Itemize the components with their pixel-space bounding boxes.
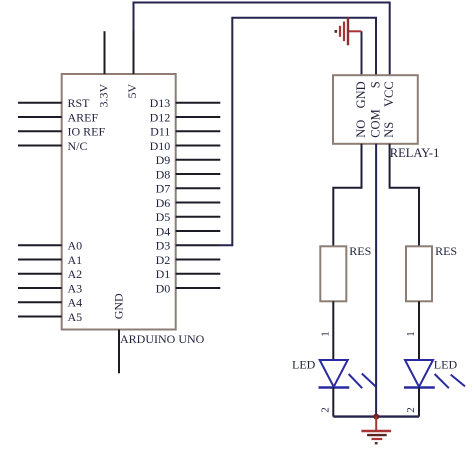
pin A0 bbox=[18, 239, 82, 253]
pin D3 bbox=[156, 239, 220, 253]
LED D1 symbol bbox=[319, 360, 377, 388]
svg-text:D0: D0 bbox=[156, 281, 171, 295]
svg-text:D7: D7 bbox=[156, 182, 171, 196]
pin D5 bbox=[156, 210, 221, 224]
wire 5V to relay VCC bbox=[134, 3, 390, 76]
svg-text:D12: D12 bbox=[150, 110, 171, 124]
svg-text:RES: RES bbox=[349, 244, 371, 258]
svg-text:A0: A0 bbox=[68, 239, 83, 253]
pin D8 bbox=[156, 167, 221, 181]
svg-text:D1: D1 bbox=[156, 267, 171, 281]
svg-text:3.3V: 3.3V bbox=[96, 83, 110, 107]
svg-text:NO: NO bbox=[354, 120, 368, 138]
pin 5V bbox=[125, 30, 139, 99]
wire red ground lead (top) bbox=[348, 30, 362, 32]
svg-text:2: 2 bbox=[319, 407, 331, 413]
pin D11 bbox=[150, 125, 220, 139]
pin A4 bbox=[18, 296, 82, 310]
pin A1 bbox=[18, 253, 82, 267]
pin IO REF bbox=[18, 125, 105, 139]
pin AREF bbox=[18, 110, 99, 124]
pin D12 bbox=[150, 110, 221, 124]
svg-text:RST: RST bbox=[68, 96, 91, 110]
svg-text:A4: A4 bbox=[68, 296, 83, 310]
svg-text:S: S bbox=[369, 81, 383, 88]
svg-text:1: 1 bbox=[319, 331, 331, 337]
wire relay NS to resistor R2 bbox=[390, 144, 419, 247]
pin N/C bbox=[18, 139, 88, 153]
svg-text:D11: D11 bbox=[150, 125, 170, 139]
svg-text:D4: D4 bbox=[156, 224, 171, 238]
svg-text:LED: LED bbox=[434, 358, 458, 372]
pin D6 bbox=[156, 196, 221, 210]
svg-text:D3: D3 bbox=[156, 239, 171, 253]
svg-text:D6: D6 bbox=[156, 196, 171, 210]
svg-text:N/C: N/C bbox=[68, 139, 88, 153]
wire bottom bus bbox=[333, 415, 419, 417]
ground symbol (bottom) bbox=[361, 431, 391, 444]
svg-text:A1: A1 bbox=[68, 253, 83, 267]
svg-text:LED: LED bbox=[292, 358, 316, 372]
svg-text:GND: GND bbox=[354, 81, 368, 108]
wire relay COM down to junction bbox=[375, 144, 377, 417]
pin D9 bbox=[156, 153, 221, 167]
svg-text:VCC: VCC bbox=[382, 81, 396, 107]
svg-text:RES: RES bbox=[435, 244, 457, 258]
svg-text:GND: GND bbox=[112, 293, 126, 319]
resistor R2 (RES) bbox=[406, 244, 457, 301]
wire R1 to LED D1 anode bbox=[332, 301, 334, 360]
wire LED D2 cathode down bbox=[418, 388, 420, 417]
pin D7 bbox=[156, 182, 221, 196]
svg-text:5V: 5V bbox=[125, 83, 139, 98]
svg-text:1: 1 bbox=[405, 331, 417, 337]
svg-text:RELAY-1: RELAY-1 bbox=[390, 146, 440, 160]
pin GND bbox=[112, 293, 126, 373]
wire top ground to relay GND bbox=[361, 31, 363, 75]
svg-text:COM: COM bbox=[369, 109, 383, 137]
junction dot bbox=[373, 414, 379, 420]
wire LED D1 cathode down bbox=[332, 388, 334, 417]
svg-text:D5: D5 bbox=[156, 210, 171, 224]
svg-text:2: 2 bbox=[405, 407, 417, 413]
pin A3 bbox=[18, 281, 82, 295]
wire relay NO to resistor R1 bbox=[333, 144, 361, 247]
pin A5 bbox=[18, 310, 82, 324]
pin D10 bbox=[150, 139, 221, 153]
svg-text:D8: D8 bbox=[156, 167, 171, 181]
pin D4 bbox=[156, 224, 221, 238]
pin D0 bbox=[156, 281, 221, 295]
pin RST bbox=[18, 96, 90, 110]
relay RELAY-1 body bbox=[333, 75, 418, 144]
wire R2 to LED D2 anode bbox=[418, 301, 420, 360]
wire D3 to relay S bbox=[218, 18, 376, 246]
svg-text:D2: D2 bbox=[156, 253, 171, 267]
pin 3.3V bbox=[96, 31, 110, 107]
pin D13 bbox=[150, 96, 221, 110]
svg-text:A2: A2 bbox=[68, 267, 83, 281]
svg-text:D9: D9 bbox=[156, 153, 171, 167]
pin D1 bbox=[156, 267, 221, 281]
svg-text:IO REF: IO REF bbox=[68, 125, 106, 139]
pin A2 bbox=[18, 267, 82, 281]
wire junction to bottom ground bbox=[375, 417, 377, 431]
pin D2 bbox=[156, 253, 221, 267]
svg-text:A3: A3 bbox=[68, 281, 83, 295]
svg-text:A5: A5 bbox=[68, 310, 83, 324]
resistor R1 (RES) bbox=[320, 244, 371, 301]
ground symbol (top, rotated) bbox=[335, 17, 349, 45]
svg-text:NS: NS bbox=[382, 122, 396, 138]
svg-text:D13: D13 bbox=[150, 96, 171, 110]
LED D2 symbol bbox=[404, 360, 465, 388]
svg-text:D10: D10 bbox=[150, 139, 171, 153]
svg-text:ARDUINO UNO: ARDUINO UNO bbox=[120, 332, 205, 346]
svg-text:AREF: AREF bbox=[68, 110, 99, 124]
Arduino UNO body bbox=[62, 74, 176, 330]
